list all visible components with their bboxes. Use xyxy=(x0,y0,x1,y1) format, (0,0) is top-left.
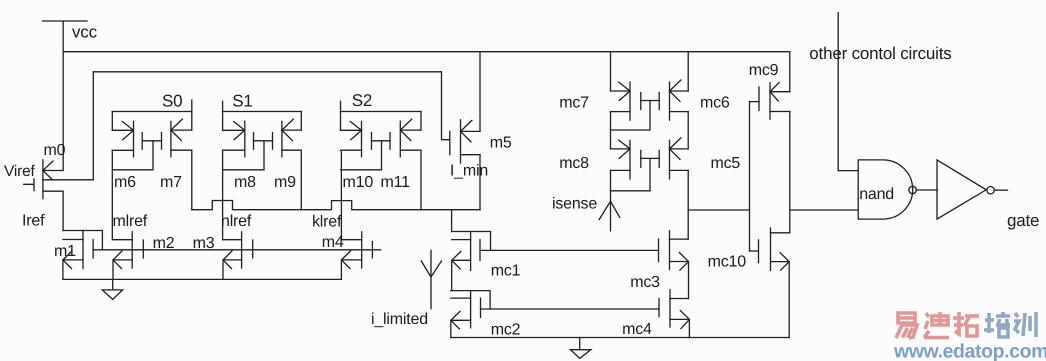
wire mc7 drain to mc8 source xyxy=(610,112,612,149)
svg-text:mc8: mc8 xyxy=(559,155,589,172)
svg-text:mc4: mc4 xyxy=(622,321,652,338)
训 xyxy=(1014,312,1036,337)
node Viref xyxy=(4,163,35,180)
node klref xyxy=(312,214,342,231)
node S2 xyxy=(341,91,373,112)
node Iref xyxy=(22,213,45,230)
transistor m0 xyxy=(24,142,66,199)
svg-text:i_limited: i_limited xyxy=(371,311,428,328)
svg-text:nlref: nlref xyxy=(221,213,252,230)
wire mc8 mc5 gate link xyxy=(641,158,659,190)
wire nand input top xyxy=(838,170,858,172)
svg-text:nand: nand xyxy=(859,186,894,203)
svg-text:m6: m6 xyxy=(114,174,136,191)
wire m5 drain down xyxy=(479,155,481,210)
wire Iref net m0 to m1 xyxy=(43,191,63,230)
wire nand to inverter xyxy=(916,189,937,191)
node I_min xyxy=(450,163,488,180)
node nlref xyxy=(221,213,252,230)
node S1 xyxy=(223,92,253,112)
wire klref net xyxy=(340,152,342,240)
svg-text:m0: m0 xyxy=(44,142,66,159)
vcc power symbol xyxy=(43,21,98,171)
ground symbol bottom xyxy=(571,338,591,359)
transistor mc2 xyxy=(451,291,521,339)
node gate xyxy=(1007,211,1039,230)
svg-text:S2: S2 xyxy=(352,91,372,110)
wire m9 drain down xyxy=(300,150,302,210)
svg-text:m11: m11 xyxy=(381,174,411,191)
wire S1 cell rail xyxy=(223,111,302,113)
transistor mc1 xyxy=(452,232,521,291)
transistor mc6 xyxy=(659,52,730,121)
wire isense node column xyxy=(611,170,651,230)
迪 xyxy=(924,312,949,338)
svg-text:gate: gate xyxy=(1007,211,1039,230)
wire mc9 drain down to nand input xyxy=(790,112,858,233)
svg-text:www.edatop.com: www.edatop.com xyxy=(893,341,1046,361)
node S0 xyxy=(162,92,192,112)
transistor m4 xyxy=(322,232,373,280)
svg-text:S0: S0 xyxy=(162,92,182,111)
svg-text:I_min: I_min xyxy=(450,163,488,180)
svg-text:mc2: mc2 xyxy=(491,322,521,339)
svg-text:mc9: mc9 xyxy=(749,62,779,79)
node mlref xyxy=(113,213,148,230)
svg-text:m7: m7 xyxy=(160,174,182,191)
nand gate U1 xyxy=(858,160,916,219)
transistor m2 xyxy=(112,232,174,280)
transistor m3 xyxy=(193,232,253,280)
watermark xyxy=(893,312,1046,361)
wire m7 drain down xyxy=(191,150,193,210)
wire S0 cell rail xyxy=(112,111,192,113)
wire vcc rail xyxy=(63,51,790,53)
svg-text:klref: klref xyxy=(312,214,342,231)
wire Iref bias rail (m0 drain to m5 gate) xyxy=(43,72,450,180)
node other control circuits input xyxy=(809,13,951,171)
transistor mc4 xyxy=(622,290,689,338)
transistor mc8 xyxy=(559,140,641,179)
transistor mc3 xyxy=(630,231,688,299)
wire summing chain with hops xyxy=(192,201,480,210)
wire nlref net xyxy=(222,150,224,240)
node i_limited input arrow xyxy=(371,250,442,328)
svg-text:other contol circuits: other contol circuits xyxy=(809,44,951,63)
transistor mc7 xyxy=(559,52,641,121)
transistor m6 xyxy=(112,112,142,192)
svg-text:m2: m2 xyxy=(153,235,175,252)
svg-text:mc6: mc6 xyxy=(700,95,730,112)
wire ground bus bottom xyxy=(451,337,789,339)
svg-text:m1: m1 xyxy=(54,243,76,260)
transistor m8 xyxy=(223,112,257,192)
svg-text:m9: m9 xyxy=(274,174,296,191)
transistor m5 xyxy=(450,120,512,163)
svg-text:mc10: mc10 xyxy=(708,254,747,271)
wire m10 m11 gate link xyxy=(341,141,391,170)
wire m6 m7 gate link xyxy=(112,141,161,170)
transistor mc9 xyxy=(749,52,790,119)
svg-text:m4: m4 xyxy=(322,234,344,251)
wire I_min tap down to mc1 xyxy=(451,210,453,232)
wire mc9 mc10 gate column xyxy=(749,102,751,251)
ground symbol left xyxy=(102,279,123,299)
svg-text:vcc: vcc xyxy=(72,22,98,41)
transistor m9 xyxy=(273,112,302,192)
svg-text:mc3: mc3 xyxy=(630,274,660,291)
wire mc1 mc3 gate net xyxy=(480,249,659,251)
svg-text:S1: S1 xyxy=(232,92,252,111)
svg-text:isense: isense xyxy=(552,196,597,213)
transistor mc5 xyxy=(659,138,740,179)
transistor m10 xyxy=(341,112,374,192)
wire mlref net xyxy=(111,150,113,239)
wire gate bus m1-m4 xyxy=(93,249,380,251)
wire S2 cell rail xyxy=(341,111,422,113)
svg-text:mlref: mlref xyxy=(113,213,148,230)
svg-text:m10: m10 xyxy=(343,174,374,191)
svg-text:Iref: Iref xyxy=(22,213,45,230)
node isense input arrow xyxy=(552,196,620,220)
svg-text:m5: m5 xyxy=(490,135,512,152)
wire mc7 mc6 gate link xyxy=(611,101,660,131)
拓 xyxy=(953,312,979,336)
wire mc5 drain to mc3 drain xyxy=(687,170,689,239)
wire ground bus left xyxy=(63,278,342,280)
svg-text:mc1: mc1 xyxy=(491,263,521,280)
wire mc5 drain to mc9 mc10 gates xyxy=(688,209,749,211)
transistor m1 xyxy=(54,231,102,280)
transistor mc10 xyxy=(708,228,790,338)
transistor m7 xyxy=(160,112,192,192)
wire inverter output xyxy=(994,189,1007,191)
易 xyxy=(896,313,917,338)
transistor m11 xyxy=(381,112,422,192)
wire mc6 drain to mc5 source xyxy=(687,112,689,149)
svg-text:mc5: mc5 xyxy=(711,155,741,172)
wire m11 drain down xyxy=(420,150,422,210)
svg-text:m8: m8 xyxy=(234,174,256,191)
svg-text:m3: m3 xyxy=(193,235,215,252)
wire m8 m9 gate link xyxy=(223,141,273,170)
svg-text:mc7: mc7 xyxy=(559,95,589,112)
svg-text:Viref: Viref xyxy=(4,163,35,180)
培 xyxy=(984,312,1010,337)
wire m5 source to vcc xyxy=(479,52,481,132)
wire mc2 mc4 gate net xyxy=(481,308,660,310)
inverter U2 xyxy=(937,160,994,219)
